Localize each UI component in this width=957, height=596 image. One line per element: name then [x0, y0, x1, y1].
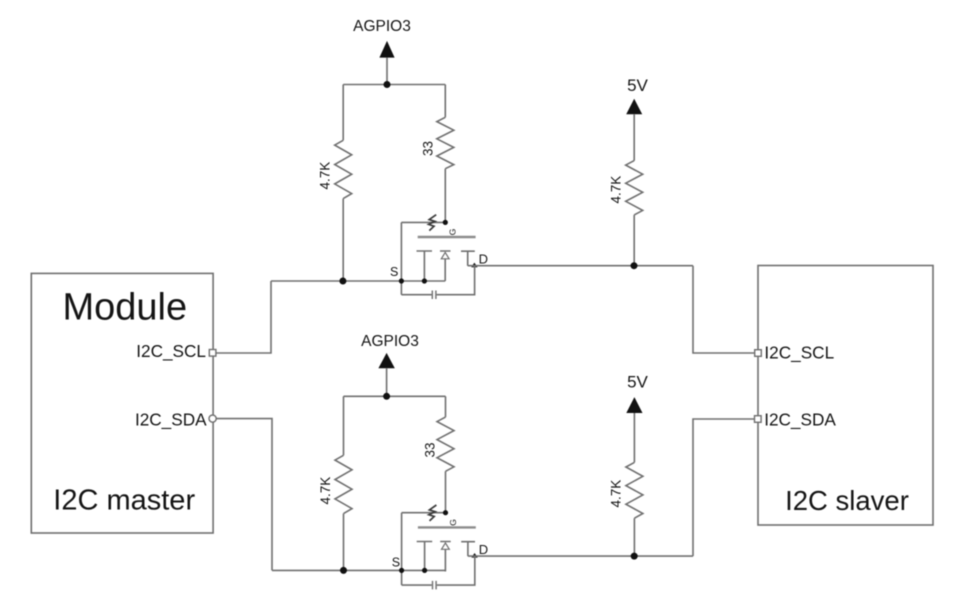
svg-text:I2C_SDA: I2C_SDA	[135, 410, 207, 430]
transistor Q2 drain finger (SDA)	[461, 542, 475, 556]
svg-text:G: G	[448, 519, 458, 526]
power flag 5V arrow (SDA)	[626, 397, 642, 413]
svg-text:S: S	[392, 556, 400, 570]
svg-text:I2C_SDA: I2C_SDA	[764, 409, 836, 429]
wire 33 upper lead (SDA)	[445, 396, 447, 417]
wire drain output (SCL)	[468, 265, 693, 267]
resistor 33 gate series (SDA)	[437, 417, 454, 471]
junction source rail / Q1 left vertical (SCL)	[399, 278, 404, 283]
svg-text:Module: Module	[62, 287, 187, 329]
wire 5V stem (SDA)	[633, 413, 635, 462]
transistor Q2 gate bar (SDA)	[418, 526, 476, 528]
transistor Q2 gate wire (SDA)	[402, 512, 446, 514]
svg-text:S: S	[390, 265, 398, 279]
svg-text:I2C master: I2C master	[53, 485, 195, 517]
wire source rail (SCL)	[271, 280, 445, 282]
svg-text:33: 33	[421, 141, 436, 156]
wire 33 lower lead (SDA)	[445, 471, 447, 512]
wire 4.7K lower lead to drain line (SDA)	[633, 518, 635, 556]
svg-text:33: 33	[423, 442, 438, 457]
wire module I2C_SDA to source rail	[216, 419, 272, 571]
wire drain output (SDA)	[468, 555, 693, 557]
svg-text:5V: 5V	[627, 76, 648, 95]
power flag AGPIO3 arrow (SCL)	[379, 41, 394, 58]
junction source rail / 4.7K (SDA)	[340, 567, 347, 574]
wire 4.7K upper lead (SDA)	[343, 396, 345, 455]
wire AGPIO3 stem (SCL)	[386, 58, 388, 85]
power flag AGPIO3 arrow (SDA)	[378, 353, 394, 368]
wire module I2C_SCL to source rail	[216, 281, 271, 353]
transistor Q1 drain finger (SCL)	[461, 251, 475, 266]
pin I2C_SDA (slave)	[755, 416, 762, 423]
pin I2C_SDA (module)	[209, 415, 216, 422]
transistor Q2 body contact and diode (SDA)	[440, 542, 451, 572]
transistor Q1 gate bar (SCL)	[418, 236, 476, 238]
junction source rail / 4.7K (SCL)	[339, 278, 346, 285]
wire Q2 bottom loop right (SDA)	[437, 556, 475, 585]
wire 4.7K lower lead (SCL)	[342, 199, 344, 281]
junction gate wire / 33 (SDA)	[443, 510, 448, 515]
transistor Q1 gate wire (SCL)	[401, 221, 445, 223]
wire 5V stem (SCL)	[633, 114, 635, 160]
power flag 5V arrow (SCL)	[626, 99, 642, 115]
wire Q1 bottom loop right (SCL)	[437, 266, 475, 295]
transistor Q2 source finger (SDA)	[417, 542, 433, 572]
wire 33 lower lead (SCL)	[444, 169, 446, 223]
module box (I2C master)	[31, 273, 213, 533]
slave box (I2C slaver)	[758, 266, 933, 526]
junction drain line / 5V pull-up (SDA)	[631, 553, 638, 560]
svg-text:D: D	[479, 252, 488, 267]
wire AGPIO3 top rail (SDA)	[344, 395, 446, 397]
svg-text:D: D	[479, 542, 488, 557]
wire 4.7K lower lead (SDA)	[343, 514, 345, 571]
capacitor body (SDA)	[433, 581, 437, 590]
resistor 4.7K pull-up to AGPIO3 (SDA)	[335, 455, 352, 513]
junction AGPIO3 rail (SDA)	[383, 393, 390, 400]
junction source rail / Q1 source finger (SCL)	[422, 278, 427, 283]
resistor 4.7K pull-up to AGPIO3 (SCL)	[335, 140, 352, 198]
wire drain line to slave I2C_SDA	[693, 419, 754, 556]
resistor 4.7K pull-up to 5V (SCL)	[626, 161, 643, 215]
wire drain line to slave I2C_SCL	[693, 266, 755, 353]
pin I2C_SCL (slave)	[755, 350, 762, 357]
wire Q1 left vertical gate-to-loop (SCL)	[400, 222, 402, 294]
wire Q1 bottom loop left (SCL)	[401, 294, 431, 296]
wire source rail (SDA)	[272, 569, 445, 571]
svg-text:4.7K: 4.7K	[318, 162, 333, 190]
wire AGPIO3 stem (SDA)	[386, 368, 388, 396]
gate squiggle (SDA)	[429, 505, 437, 521]
svg-text:4.7K: 4.7K	[318, 477, 333, 505]
wire Q2 bottom loop left (SDA)	[402, 584, 432, 586]
resistor 4.7K pull-up to 5V (SDA)	[626, 462, 643, 518]
junction AGPIO3 rail (SCL)	[384, 81, 391, 88]
junction gate wire / 33 (SCL)	[443, 220, 448, 225]
svg-text:I2C slaver: I2C slaver	[785, 485, 909, 516]
svg-text:I2C_SCL: I2C_SCL	[136, 341, 206, 361]
capacitor body (SCL)	[432, 291, 436, 300]
svg-text:AGPIO3: AGPIO3	[353, 18, 411, 35]
svg-text:4.7K: 4.7K	[609, 176, 624, 204]
drain pin mark (Q1)	[471, 263, 477, 268]
resistor 33 gate series (SCL)	[437, 117, 454, 168]
gate squiggle (SCL)	[429, 215, 437, 231]
svg-text:5V: 5V	[627, 373, 648, 392]
svg-text:I2C_SCL: I2C_SCL	[764, 342, 834, 362]
wire 4.7K upper lead (SCL)	[342, 85, 344, 141]
junction source rail / Q2 source finger (SDA)	[422, 568, 427, 573]
svg-text:4.7K: 4.7K	[609, 480, 624, 508]
transistor Q1 body contact and diode (SCL)	[440, 251, 451, 281]
pin I2C_SCL (module)	[209, 350, 216, 357]
transistor Q1 source finger (SCL)	[417, 251, 433, 281]
svg-text:AGPIO3: AGPIO3	[361, 333, 419, 350]
junction source rail / Q2 left vertical (SDA)	[399, 568, 404, 573]
wire AGPIO3 top rail (SCL)	[343, 84, 445, 86]
wire Q2 left vertical gate-to-loop (SDA)	[401, 513, 403, 585]
wire 33 upper lead (SCL)	[444, 85, 446, 118]
junction drain line / 5V pull-up (SCL)	[631, 262, 638, 269]
svg-text:G: G	[448, 229, 458, 236]
drain pin mark (Q2)	[471, 553, 477, 558]
wire 4.7K lower lead to drain line (SCL)	[633, 215, 635, 266]
